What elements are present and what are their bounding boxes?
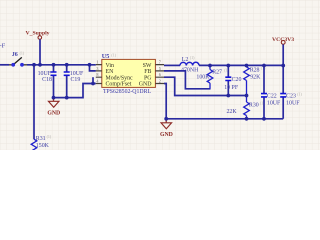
svg-text:(1): (1)	[111, 53, 116, 58]
svg-text:3: 3	[96, 66, 98, 71]
svg-text:C23: C23	[286, 93, 296, 99]
ground symbol GND left	[47, 98, 60, 117]
capacitor C22	[261, 65, 281, 118]
pins 1,3,8,4 (left stubs)	[96, 65, 102, 84]
wire: ground rail	[166, 118, 283, 120]
svg-text:10UF: 10UF	[286, 100, 300, 106]
wire: Vout rail	[199, 64, 283, 66]
IC U5 TPS628502-Q1DRL	[102, 53, 156, 95]
svg-text:L2: L2	[182, 57, 189, 63]
power port V_Supply	[26, 31, 50, 65]
svg-text:C18: C18	[42, 77, 52, 83]
power port VCC3V3	[272, 37, 294, 66]
wire: input feed from left edge	[0, 64, 9, 66]
svg-text:EN: EN	[106, 69, 115, 75]
junction dots on ground rail	[164, 117, 168, 121]
svg-text:R31: R31	[36, 136, 46, 142]
capacitor C18	[38, 65, 57, 98]
svg-text:GND: GND	[139, 82, 153, 88]
svg-text:(1): (1)	[190, 55, 195, 60]
svg-text:VCC3V3: VCC3V3	[272, 37, 294, 43]
wire: Vin rail	[27, 64, 96, 66]
svg-text:V_Supply: V_Supply	[26, 31, 50, 37]
svg-text:10 PF: 10 PF	[224, 85, 239, 91]
junction dots on Vout rail	[208, 64, 212, 68]
capacitor C19	[64, 65, 84, 98]
junction dots on Vin rail	[32, 63, 36, 67]
junction dots on PG rail	[226, 94, 230, 98]
svg-text:22K: 22K	[226, 109, 237, 115]
svg-text:6: 6	[159, 72, 161, 77]
switch J6	[9, 51, 27, 67]
background grid	[0, 0, 320, 150]
svg-text:10UF: 10UF	[70, 71, 84, 77]
svg-text:GND: GND	[160, 132, 173, 138]
wire: R31 drop	[33, 65, 35, 139]
svg-text:PG: PG	[144, 75, 152, 81]
wire: PG net	[164, 77, 247, 95]
svg-text:1: 1	[96, 60, 98, 65]
svg-text:Vin: Vin	[106, 63, 115, 69]
resistor R30	[226, 96, 265, 119]
svg-text:Comp/Fset: Comp/Fset	[106, 82, 132, 88]
svg-text:Mode/Sync: Mode/Sync	[106, 75, 134, 81]
capacitor C20	[224, 65, 241, 95]
svg-text:SW: SW	[143, 63, 152, 69]
svg-text:(1): (1)	[20, 51, 25, 56]
svg-text:100K: 100K	[196, 74, 210, 80]
svg-text:(1): (1)	[47, 134, 52, 139]
svg-text:92K: 92K	[250, 74, 261, 80]
svg-text:7: 7	[159, 60, 161, 65]
svg-text:2: 2	[159, 79, 161, 84]
svg-text:C22: C22	[267, 93, 277, 99]
wire: EN tap	[90, 65, 96, 71]
junction dots on bottom-left rail	[52, 96, 56, 100]
resistor R31	[31, 134, 52, 153]
svg-text:R28: R28	[250, 67, 260, 73]
svg-text:10UF: 10UF	[267, 100, 281, 106]
svg-text:R27: R27	[212, 69, 222, 75]
resistor R28	[244, 65, 266, 95]
ground symbol GND middle	[160, 119, 173, 138]
svg-text:5: 5	[159, 66, 161, 71]
capacitor C23	[280, 65, 302, 118]
svg-text:10UF: 10UF	[38, 71, 52, 77]
svg-text:U5: U5	[102, 53, 110, 60]
pins 7,5,6,2 (right stubs)	[155, 65, 164, 84]
svg-text:C20: C20	[232, 77, 242, 83]
svg-text:(1): (1)	[297, 91, 302, 96]
wire: GND pin drop	[164, 84, 166, 119]
svg-text:FB: FB	[144, 69, 151, 75]
wire: V_Supply drop	[39, 39, 41, 65]
svg-text:GND: GND	[47, 111, 60, 117]
svg-text:C19: C19	[71, 77, 81, 83]
wire: Mode/Sync jog	[92, 77, 94, 83]
svg-text:R30: R30	[249, 102, 259, 108]
wire: FB net	[164, 71, 211, 89]
svg-text:150K: 150K	[36, 143, 50, 149]
svg-text:8: 8	[96, 72, 98, 77]
inductor L2	[180, 55, 199, 73]
wire: SW to inductor	[164, 64, 180, 66]
svg-text:J6: J6	[12, 52, 18, 58]
resistor R27	[196, 65, 229, 88]
wire: bottom-left ground rail to Comp/Fset	[54, 84, 96, 98]
svg-text:-F: -F	[0, 43, 6, 50]
svg-text:TPS628502-Q1DRL: TPS628502-Q1DRL	[103, 89, 151, 95]
wire: VCC3V3 drop	[282, 44, 284, 65]
